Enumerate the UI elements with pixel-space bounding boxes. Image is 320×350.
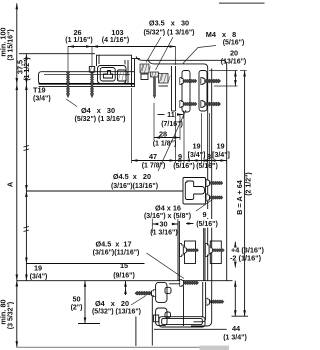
wire bottom door line y263.5: [26, 263, 144, 265]
bottom guide bracket lower: [156, 308, 171, 326]
svg-text:Ø4 x 16: Ø4 x 16: [155, 204, 181, 213]
node bottom-ref arrows: [16, 275, 19, 281]
wire mid-door line y191: [26, 190, 183, 192]
bottom guide screw S4 left-pointing: [135, 290, 156, 297]
node floor arrow: [16, 341, 19, 347]
wire ref line y316.2: [232, 315, 249, 317]
svg-text:(3/16")(13/16"): (3/16")(13/16"): [111, 183, 158, 190]
node min100 top arrow: [16, 3, 19, 9]
svg-text:9: 9: [202, 210, 206, 219]
wall bottom corner profile outer: [191, 281, 212, 326]
leader M4x8: [183, 46, 216, 64]
leader O3.5x30 b: [156, 37, 174, 70]
node ceiling line top right: [219, 2, 265, 4]
wire top ref line y53.7: [19, 53, 95, 55]
rail A profile: [182, 71, 190, 113]
svg-text:min. 100: min. 100: [0, 27, 8, 56]
svg-text:(5/16"): (5/16"): [196, 221, 218, 228]
svg-text:-2 (1/16"): -2 (1/16"): [230, 254, 262, 263]
leader O4x30: [66, 99, 77, 107]
bracket block right of carriage: [159, 74, 171, 87]
svg-text:(1 1/8"): (1 1/8"): [153, 141, 177, 148]
wire bottom ref line y280.5: [17, 280, 233, 282]
dim +4/-2 updown arrow x235: [234, 242, 236, 248]
wall profile outer L1: [136, 57, 227, 281]
svg-text:[3/4"]: [3/4"]: [188, 152, 206, 159]
dim 15 x125.5 below-line arrows: [125, 281, 127, 295]
node 19 dim arrows bottom-left (outside): [25, 258, 28, 264]
node mid bracket line arrows: [25, 185, 28, 191]
wall side screw S5: [180, 279, 199, 286]
dim 9 arrow (5/16): [188, 222, 194, 225]
wall side guide verticals: [203, 282, 206, 318]
wire chain ext lines: [131, 88, 133, 163]
top track profile: [97, 55, 141, 87]
svg-text:[3/4"]: [3/4"]: [212, 152, 230, 159]
dim 28 y137.5: [154, 137, 180, 139]
screw B1: [201, 78, 221, 85]
svg-text:15: 15: [120, 261, 128, 270]
screw B2: [201, 101, 221, 108]
svg-text:Ø4 x 30: Ø4 x 30: [81, 106, 115, 115]
svg-text:(9/16"): (9/16"): [113, 273, 135, 280]
svg-text:M4 x 8: M4 x 8: [206, 30, 236, 39]
svg-text:50: 50: [72, 295, 80, 304]
svg-text:Ø4.5 x 17: Ø4.5 x 17: [95, 240, 131, 249]
wire ext plate x175.5: [175, 47, 177, 66]
svg-text:Ø4 x 20: Ø4 x 20: [95, 299, 129, 308]
svg-text:(13/16"): (13/16"): [221, 59, 247, 66]
dim 11 y114.5: [158, 114, 165, 116]
dim 44 line x235.3: [234, 281, 236, 317]
clamp screw block: [140, 64, 151, 80]
adjuster plate right: [210, 241, 221, 264]
adjuster screw left: [180, 244, 199, 257]
leader O4.5x20: [158, 110, 186, 171]
leader O3.5x30 a: [146, 37, 161, 63]
svg-text:(5/32") (1 3/16"): (5/32") (1 3/16"): [144, 30, 195, 37]
svg-text:(1 3/4"): (1 3/4"): [223, 335, 247, 342]
carriage body U1: [98, 60, 129, 84]
svg-text:(1 1/16"): (1 1/16"): [65, 37, 92, 44]
hanger bolt screw S3: [151, 72, 160, 98]
floor line under track: [154, 328, 227, 330]
svg-text:20: 20: [230, 49, 238, 58]
bottom guide bracket upper: [156, 282, 171, 302]
door face lines below bracket: [178, 221, 205, 281]
svg-text:Ø4.5 x 20: Ø4.5 x 20: [113, 172, 151, 181]
node door-top arrows: [16, 78, 19, 84]
svg-text:(2"): (2"): [71, 305, 83, 312]
node equals mark 2: [24, 227, 30, 232]
wire ext screw2 x92: [91, 47, 93, 67]
dim 47/9/19/8/19 chain y160.5: [132, 160, 227, 162]
svg-text:(1 3/16"): (1 3/16"): [150, 230, 177, 237]
bottom track: [154, 315, 205, 327]
svg-text:30: 30: [159, 220, 167, 229]
svg-text:B = A + 64: B = A + 64: [235, 179, 244, 215]
svg-text:(5/32") (13/16"): (5/32") (13/16"): [92, 309, 141, 316]
dim 30 y224: [152, 223, 158, 226]
adjuster plate left: [185, 241, 196, 264]
svg-text:44: 44: [232, 324, 241, 333]
svg-text:(5/32") (1 3/16"): (5/32") (1 3/16"): [75, 116, 126, 123]
leader O4x16: [196, 200, 213, 212]
svg-text:19: 19: [34, 264, 42, 273]
label 9b: [199, 209, 210, 218]
wall bottom corner profile inner: [194, 318, 206, 322]
dim 20 right side x235.4: [234, 71, 236, 87]
leader O4x20: [131, 296, 146, 306]
svg-text:19: 19: [216, 142, 224, 151]
bracket screw M2: [206, 194, 223, 201]
bottom door edge verticals: [136, 295, 152, 346]
svg-text:(2 1/2"): (2 1/2"): [246, 172, 253, 196]
door top rail bar: [39, 72, 135, 87]
wire ext screw1 x68: [67, 47, 69, 72]
svg-text:Ø3.5 x 30: Ø3.5 x 30: [149, 19, 189, 28]
svg-text:(3/16")(11/16"): (3/16")(11/16"): [93, 250, 140, 257]
wall profile line x208: [211, 69, 213, 281]
svg-text:(4 1/16"): (4 1/16"): [102, 37, 129, 44]
wire floor line grey: [17, 346, 229, 348]
svg-text:(5/16"): (5/16"): [196, 163, 218, 170]
leader O4.5x17: [147, 253, 185, 279]
wire left main extension line: [16, 3, 18, 347]
svg-text:(1 7/8"): (1 7/8"): [142, 163, 166, 170]
dim 50 x85: [84, 281, 86, 324]
svg-text:(3 15/16"): (3 15/16"): [8, 29, 15, 60]
screw S2 in door bar: [89, 67, 94, 98]
middle door bracket: [183, 178, 206, 205]
dim 26/103 line y46.5: [68, 46, 176, 48]
svg-text:26: 26: [73, 28, 81, 37]
svg-text:min. 80: min. 80: [0, 299, 8, 324]
svg-text:103: 103: [111, 28, 123, 37]
wall profile inner L2: [148, 60, 208, 281]
wall side screw S6: [206, 298, 224, 305]
svg-text:19: 19: [192, 142, 200, 151]
dim B=A+64 line x244.6: [244, 71, 246, 317]
node equals mark 1: [24, 146, 30, 151]
screw A1: [180, 78, 197, 85]
svg-text:(5/16"): (5/16"): [173, 163, 195, 170]
node 37.5 dim arrows: [25, 54, 28, 60]
wire second extension line x26.4: [25, 54, 27, 281]
rail B profile: [199, 71, 207, 112]
svg-text:(5/16"): (5/16"): [223, 40, 245, 47]
svg-text:(1 1/2"): (1 1/2"): [24, 57, 31, 81]
svg-text:28: 28: [159, 130, 167, 139]
svg-text:A: A: [6, 181, 15, 187]
svg-text:8: 8: [207, 152, 211, 161]
bracket screw M1: [206, 180, 223, 187]
svg-text:T19: T19: [33, 86, 46, 95]
node floor grey slab: [200, 346, 230, 350]
svg-text:9: 9: [178, 152, 182, 161]
svg-text:(7/16"): (7/16"): [161, 121, 183, 128]
screw S1 in door bar: [66, 73, 69, 98]
svg-text:(3/4"): (3/4"): [33, 96, 51, 103]
bottom guide L profile: [169, 284, 184, 326]
adjuster screw right: [205, 244, 224, 257]
svg-text:(3 5/32"): (3 5/32"): [8, 302, 15, 329]
svg-text:11: 11: [167, 110, 175, 119]
svg-text:(3/4"): (3/4"): [30, 274, 48, 281]
screw A2: [180, 101, 197, 108]
svg-text:47: 47: [149, 152, 157, 161]
door hanger plate: [172, 66, 176, 111]
